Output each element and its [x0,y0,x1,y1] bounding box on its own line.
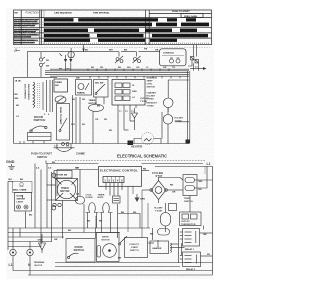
cycling stat diamond [150,177,167,203]
heater box schematic [150,229,172,254]
hi-limit stat circle [163,108,173,144]
connector plug B [133,52,141,63]
mid link wire [118,214,140,229]
motor lead cluster [39,52,45,78]
temp switch right wires [195,167,213,189]
xbox stubs [47,173,56,210]
heater element circle [163,92,173,112]
connector plug A [115,52,123,63]
table frame [14,10,212,45]
bus wires left [8,228,150,247]
hi-limit stat label [175,118,184,123]
door switch body [28,133,52,141]
wire from hi-limit to bus drop [175,121,189,123]
outlet tstat labels [140,98,149,103]
drive motor box [97,233,120,262]
bar row 1 seg c [167,18,177,21]
motor box inner wires [50,80,53,112]
selector component [76,80,92,96]
relay 2 box [180,252,201,267]
start sw pill [76,197,85,205]
bell chime box [13,182,33,193]
scan noise overlay [0,0,1,1]
motor box left edge [13,77,15,143]
console rounded box [160,49,187,66]
power arrow right [190,67,207,70]
thermal fuse arrow [132,108,138,121]
bar row 4 seg c [152,34,208,37]
wire chime leads [56,144,58,148]
bar row 2 seg c [181,23,209,27]
wire chime feed [8,181,13,183]
bar row 1 seg b [78,18,158,21]
winding lead solid 2 [46,80,48,112]
temp switch box [183,175,197,196]
ground symbol [8,164,14,170]
cycling to temp switch wire [159,178,184,181]
chime cup [54,148,75,152]
bus lower ticks [90,76,180,78]
terminal stubs [106,183,122,196]
indicator arrow small [60,54,68,71]
bar row 3 seg a [44,29,88,33]
indicator circle with arrow [68,48,74,71]
row separator rule [14,26,212,28]
hi-limit oval [161,203,171,232]
column divider right narrow [145,10,147,45]
terminal circle L1 [10,247,16,256]
header rule right [149,12,211,14]
wire L1 drop [16,49,20,51]
switch box [94,80,109,98]
winding dashed leads [38,83,40,108]
node cam drop [84,45,109,52]
contact pair dots [53,203,61,206]
timer motor text backing [60,185,74,194]
door switch label [34,115,46,122]
electronic control box [99,167,142,187]
diamond side stubs [142,190,190,212]
wire top run [28,51,84,53]
bar row 3 seg c [145,29,172,33]
bar row 3 seg b [94,29,139,33]
harness bus lines [45,69,189,76]
wire right pair down [194,63,199,71]
thermistor box [180,212,202,226]
header cell FREQ GANG [181,13,203,17]
door switch symbol [30,126,47,132]
schematic vertical wires [35,164,205,264]
bus drop thick [188,71,190,144]
diagram bottom edge [14,143,190,145]
chime terminal labels [54,146,70,148]
wire right riser [161,112,163,139]
long bottom wires [13,256,213,275]
top wire tick [45,161,47,164]
temp switch label [184,198,193,203]
misc verticals left [13,196,26,247]
relay1 right wire [200,232,213,234]
bar row 4 seg a [44,34,90,37]
wire left riser [27,51,29,77]
row separator rule [14,32,212,34]
relay2 right wire [201,255,213,257]
header bottom rule [14,17,212,19]
contact circles below start box [62,143,69,146]
motor inner labels [16,105,50,118]
buzzer oval [55,96,66,103]
schematic bottom border [28,274,213,276]
grn box [169,204,177,211]
timer motor text [60,187,69,193]
left border wire [7,182,9,251]
label block right of temp box [147,102,158,108]
timer switch box [54,79,68,92]
column divider bars start [43,10,45,45]
temp control cells [115,83,130,101]
wires into tall box [73,95,81,144]
under-table dashed trace [14,47,210,49]
bar row 2 seg b [156,23,177,27]
row separator rule [14,37,212,39]
start switch tall box [57,104,70,141]
ground triangle mid [135,194,140,202]
bar row 5 seg b [98,39,145,42]
wire between plugs [121,51,137,53]
solenoid omega 1 [86,203,99,213]
bar row 5 seg a [44,39,90,42]
wire top run right [108,51,119,53]
push-to-start label [31,152,52,159]
L1 top wire [155,167,213,276]
bar row 1 seg d [186,18,196,21]
bar row 1 seg a [44,18,74,21]
connector cluster right [188,45,198,66]
drum light box [15,193,32,212]
push to start box schematic [119,236,148,258]
winding lead solid [42,82,44,110]
door switch leads [20,141,44,144]
drive motor label [102,237,111,242]
coil label 1 [86,195,93,200]
thermistor label [181,221,196,226]
wire run two [57,169,98,171]
motor switch small box [54,171,72,179]
dashed section border [55,160,205,162]
wires below boxes to bus2 [96,97,136,144]
console inner line [162,55,184,57]
terminal block label [34,261,46,267]
heater circle ticks [144,139,152,142]
motor winding vertical text [24,84,31,100]
hi-limit tstat label [154,208,163,213]
lower mid labels [71,99,134,132]
cabinet label [147,92,157,101]
aux contact box [113,196,121,203]
ground spade [39,234,46,253]
wire heater top to console [168,80,189,92]
column divider switch/function [20,10,22,45]
door switch label schematic [74,245,85,252]
relay 1 box [180,229,200,247]
timer motor oval [89,104,104,111]
temp control box [112,80,145,106]
wire heater right [154,139,162,144]
heater dashed circle [142,133,154,145]
bus tick marks [88,69,169,71]
column divider function/contacts [39,10,41,45]
left column text smudges [14,19,39,43]
door switch box schematic [66,239,95,263]
heater to relay wires [148,243,185,248]
push to start label schematic [130,244,140,252]
wire heater row [134,139,142,144]
coil stubs [88,213,111,229]
bar row 5 seg c [150,39,177,42]
terminal digits [104,178,123,182]
interior temp ctrl switch label [147,78,158,89]
dotted tick row [44,42,210,44]
heater corner block [128,141,134,146]
cluster labels [46,60,50,67]
terminal strip [103,177,124,183]
terminal circle N [27,242,33,256]
column divider contacts double [41,10,43,45]
bar row 2 seg a [44,23,152,27]
solenoid omega 2 [100,203,113,213]
control to cycling wire [142,170,150,172]
coil label 2 [98,195,105,200]
cycling stat label [152,172,163,178]
console terminals [170,58,181,63]
top wire left [46,163,99,165]
bar row 3 seg d [180,29,197,33]
corner block [186,140,190,144]
timer motor lead [92,111,94,143]
box feed stubs [63,228,111,239]
wire to console box [139,51,161,53]
timer motor circle schematic [56,179,78,201]
harness labels [91,67,175,69]
motor winding coil [33,82,35,108]
column divider right narrow 2 [148,10,150,45]
motor box top edge [14,76,58,78]
bar row 4 seg b [97,34,144,37]
temp control inner labels [132,85,137,99]
